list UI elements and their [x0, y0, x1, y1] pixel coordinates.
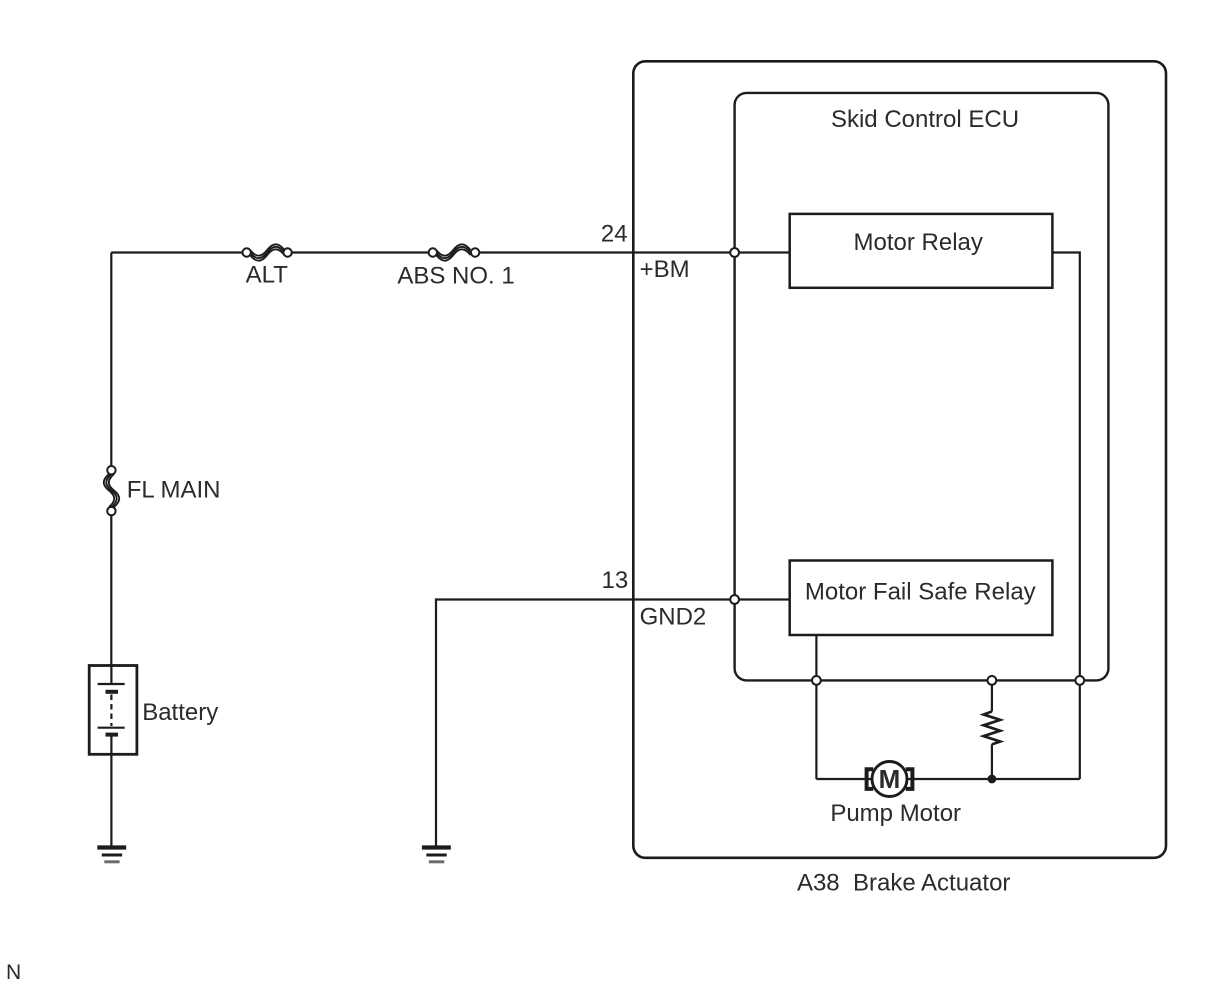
- pump motor: [867, 762, 913, 797]
- svg-text:+BM: +BM: [640, 256, 690, 283]
- fuse ABS NO. 1: [429, 244, 480, 260]
- outer box A38 Brake Actuator: [633, 61, 1166, 858]
- wire pin 13 GND2 to ground: [436, 600, 735, 848]
- svg-text:24: 24: [601, 221, 628, 248]
- relay box Motor Relay: [790, 214, 1053, 288]
- battery: [89, 666, 137, 755]
- junction circle: ECU pin GND2: [730, 595, 739, 604]
- junction circle: ECU bottom, resistor leg: [988, 676, 997, 685]
- ground (battery): [97, 848, 126, 862]
- svg-text:13: 13: [601, 567, 628, 594]
- relay box Motor Fail Safe Relay: [790, 561, 1053, 636]
- wire battery+ to pin 24 (top horizontal): [111, 251, 734, 253]
- svg-text:FL MAIN: FL MAIN: [127, 476, 221, 503]
- svg-text:Battery: Battery: [142, 699, 218, 726]
- svg-text:Skid Control ECU: Skid Control ECU: [831, 106, 1019, 133]
- wire +BM node to Motor Relay: [735, 251, 790, 253]
- fusible link FL MAIN: [104, 466, 119, 515]
- wire Motor Fail Safe Relay down to pump rail: [815, 635, 817, 779]
- junction circle: ECU bottom, motor relay leg: [1075, 676, 1084, 685]
- svg-text:M: M: [879, 764, 901, 794]
- wire left vertical battery feed: [110, 253, 112, 667]
- svg-text:GND2: GND2: [640, 603, 707, 630]
- resistor (pump motor check): [984, 680, 1001, 779]
- svg-text:ALT: ALT: [246, 262, 289, 289]
- wire pump motor bottom rail: [816, 778, 1079, 780]
- svg-text:A38 Brake Actuator: A38 Brake Actuator: [797, 870, 1010, 897]
- inner box Skid Control ECU: [735, 93, 1109, 681]
- junction circle: ECU bottom, fail safe relay leg: [812, 676, 821, 685]
- fuse ALT: [243, 244, 292, 260]
- svg-text:Pump Motor: Pump Motor: [830, 800, 961, 827]
- wire Motor Relay output down to pump rail: [1052, 253, 1079, 780]
- svg-text:ABS NO. 1: ABS NO. 1: [397, 263, 514, 290]
- junction circle: ECU pin +BM: [730, 248, 739, 257]
- svg-text:Motor Fail Safe Relay: Motor Fail Safe Relay: [805, 579, 1036, 606]
- ground (GND2 wire): [422, 848, 451, 862]
- svg-text:N: N: [6, 961, 21, 984]
- svg-text:Motor Relay: Motor Relay: [854, 229, 983, 256]
- wire GND2 node to Motor Fail Safe Relay: [735, 598, 790, 600]
- junction dot: resistor to pump rail: [988, 775, 997, 784]
- wire battery- to ground: [110, 754, 112, 847]
